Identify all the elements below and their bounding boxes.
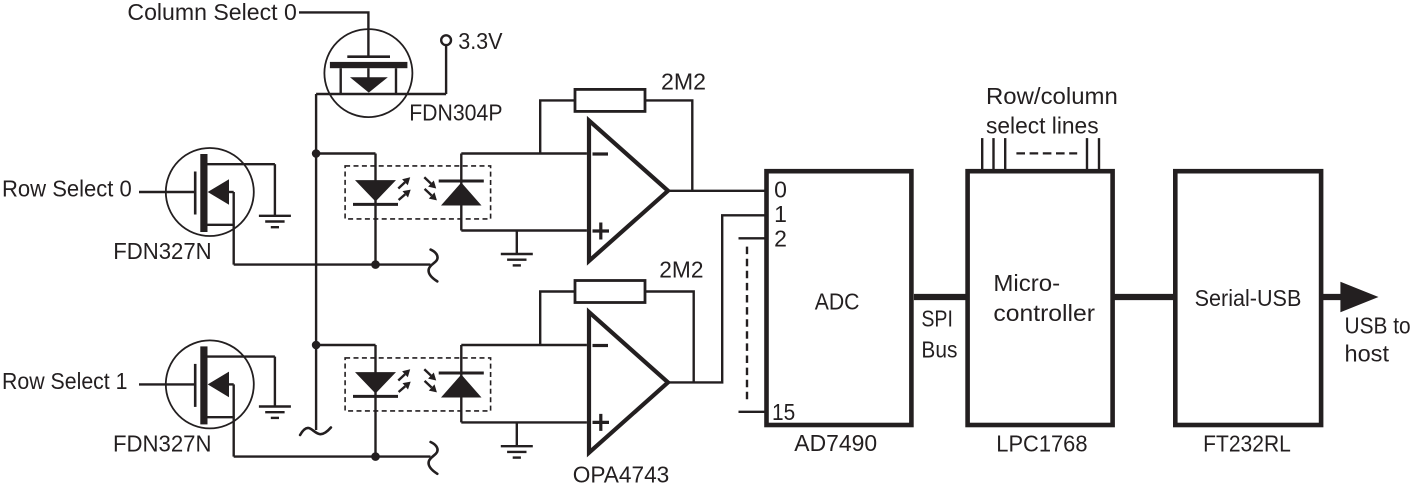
ground for U2 [501, 254, 533, 265]
wire LED 1 vertical [374, 154, 376, 265]
ADC block U5 [767, 171, 912, 425]
wire source down to row 1 line [232, 384, 234, 456]
wire row 1 line [234, 455, 431, 457]
svg-text:Row Select 0: Row Select 0 [2, 176, 132, 202]
wire rail branch to LED 2 [316, 344, 375, 346]
wire R1 to U2 output [645, 100, 692, 190]
optocoupler U1 dashed box [345, 166, 491, 219]
dashed ellipsis between select pins [1016, 152, 1077, 154]
wire U4 output to ADC input 1 [668, 215, 767, 382]
USB output arrow [1321, 282, 1378, 313]
svg-text:ADC: ADC [815, 289, 860, 315]
label SPI Bus [921, 306, 957, 363]
svg-text:Row/column: Row/column [986, 83, 1118, 109]
wire rail branch to LED 1 [316, 152, 375, 154]
svg-text:LPC1768: LPC1768 [996, 431, 1087, 457]
wire Row Select 1 to gate [139, 383, 194, 385]
wire ADC input 15 stub [739, 411, 767, 413]
wire feedback from U4 inverting input to R2 [540, 292, 575, 346]
label USB to host [1345, 313, 1411, 367]
wire Column Select 0 to PMOS gate [299, 12, 368, 56]
svg-text:FDN304P: FDN304P [409, 99, 502, 125]
SPI bus thick wire [914, 294, 968, 300]
wire source down to row 0 line [232, 192, 234, 265]
svg-text:host: host [1345, 341, 1390, 367]
wire Row Select 0 to gate [139, 191, 194, 193]
wire U2 output to ADC input 0 [668, 190, 767, 192]
ground for Q2 [259, 216, 291, 227]
wire ground stub at U4 non-inverting input [516, 422, 518, 445]
wire PMOS source/drain bottom run [316, 93, 446, 95]
wire to op-amp U4 non-inverting input [461, 421, 587, 423]
svg-text:FT232RL: FT232RL [1203, 431, 1291, 457]
Micro-controller block U6 [968, 171, 1113, 425]
squiggle break symbol on row 1 line [429, 442, 438, 474]
svg-text:FDN327N: FDN327N [113, 431, 212, 457]
wire R2 to U4 output [645, 292, 694, 383]
node junction on rail (row 1 branch) [312, 341, 321, 350]
svg-text:15: 15 [772, 399, 795, 425]
wire drain to ground [274, 164, 276, 215]
light emission arrows from D1 [398, 177, 410, 200]
svg-text:Column Select 0: Column Select 0 [127, 0, 296, 25]
svg-text:controller: controller [993, 300, 1095, 326]
wire ADC input 2 stub [739, 237, 767, 239]
wire LED 2 vertical [374, 345, 376, 457]
LED D3 (optocoupler emitter) [353, 372, 398, 396]
svg-text:AD7490: AD7490 [794, 430, 877, 456]
svg-text:Row Select 1: Row Select 1 [2, 368, 128, 394]
optocoupler U3 dashed box [345, 358, 491, 411]
photodiode D4 (optocoupler detector) [439, 373, 484, 398]
dashed ellipsis line (inputs 2..15) [746, 247, 748, 400]
svg-text:0: 0 [774, 176, 787, 202]
bus wire MCU to Serial-USB [1113, 294, 1176, 300]
svg-text:1: 1 [774, 201, 787, 227]
svg-text:Serial-USB: Serial-USB [1195, 285, 1302, 311]
svg-text:2M2: 2M2 [661, 68, 706, 94]
wire drain to ground [274, 357, 276, 406]
op-amp U2 (OPA4743 section A) [589, 121, 668, 262]
row/column select pin wires [982, 138, 1099, 171]
transistor Q1 FDN304P (PMOS) [324, 29, 412, 117]
photodiode D2 (optocoupler detector) [439, 181, 484, 206]
supply terminal 3.3V [441, 35, 451, 45]
svg-text:FDN327N: FDN327N [113, 238, 212, 264]
wire row 0 line [234, 263, 431, 265]
svg-text:2: 2 [774, 225, 787, 251]
wire to 3.3V terminal [445, 45, 447, 94]
resistor R2 2M2 [575, 281, 645, 303]
wire photodiode D4 vertical [460, 345, 462, 422]
squiggle break symbol on row 0 line [429, 250, 438, 282]
ground for U4 [501, 446, 533, 457]
light emission arrows from D3 [398, 369, 410, 392]
svg-text:2M2: 2M2 [659, 257, 703, 283]
svg-text:select lines: select lines [986, 112, 1099, 138]
wire feedback from U2 inverting input to R1 [540, 100, 575, 153]
light reception arrows into photodiode D2 [424, 177, 437, 200]
resistor R1 2M2 [575, 89, 645, 111]
wire to op-amp U2 inverting input [461, 152, 587, 154]
node junction on rail (row 0 branch) [312, 149, 321, 158]
svg-text:Micro-: Micro- [993, 270, 1060, 296]
wire ground stub at U2 non-inverting input [516, 231, 518, 254]
wire photodiode D2 vertical [460, 154, 462, 231]
svg-text:Bus: Bus [921, 337, 957, 363]
svg-text:USB to: USB to [1345, 313, 1411, 339]
node junction LED 2 to row 1 line [371, 452, 380, 461]
wire to op-amp U4 inverting input [461, 344, 587, 346]
ground for Q3 [259, 407, 291, 418]
svg-text:OPA4743: OPA4743 [573, 462, 670, 488]
wire column rail (vertical) [315, 94, 317, 430]
Serial-USB block U7 [1175, 171, 1321, 425]
node junction LED 1 to row 0 line [371, 260, 380, 269]
transistor Q3 FDN327N (NMOS) [166, 340, 275, 428]
label Row/column select lines [986, 83, 1118, 138]
svg-text:3.3V: 3.3V [458, 28, 503, 54]
LED D1 (optocoupler emitter) [353, 180, 398, 204]
squiggle break symbol on rail [300, 428, 331, 436]
wire to op-amp U2 non-inverting input [461, 229, 587, 231]
svg-text:SPI: SPI [921, 306, 953, 332]
light reception arrows into photodiode D4 [424, 369, 437, 392]
transistor Q2 FDN327N (NMOS) [166, 148, 275, 236]
op-amp U4 (OPA4743 section B) [589, 312, 668, 453]
label Micro-controller [993, 270, 1095, 326]
